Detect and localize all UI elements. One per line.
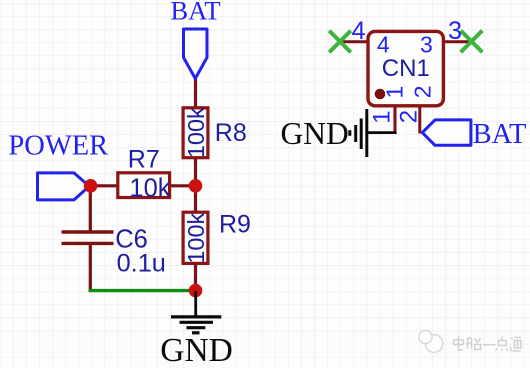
svg-text:10k: 10k	[129, 175, 170, 203]
svg-text:R8: R8	[215, 119, 247, 147]
svg-text:4: 4	[377, 31, 390, 57]
svg-text:100k: 100k	[183, 212, 209, 263]
svg-text:1: 1	[381, 86, 407, 99]
svg-text:2: 2	[409, 85, 435, 98]
svg-text:R7: R7	[128, 146, 160, 174]
svg-text:BAT: BAT	[473, 119, 527, 150]
svg-text:1: 1	[369, 110, 396, 123]
svg-text:2: 2	[396, 110, 423, 123]
svg-text:CN1: CN1	[382, 55, 430, 82]
svg-text:R9: R9	[219, 210, 251, 238]
svg-text:GND: GND	[281, 116, 349, 151]
svg-text:4: 4	[352, 17, 366, 45]
svg-text:0.1u: 0.1u	[117, 249, 166, 277]
svg-text:100k: 100k	[183, 107, 209, 158]
svg-text:POWER: POWER	[8, 131, 108, 162]
svg-text:BAT: BAT	[170, 0, 220, 26]
svg-text:3: 3	[448, 17, 462, 45]
svg-text:3: 3	[420, 31, 433, 57]
svg-text:GND: GND	[160, 332, 233, 368]
